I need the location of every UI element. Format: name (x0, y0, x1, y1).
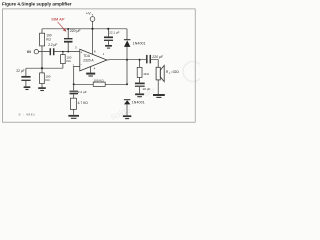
ground C7 (105, 46, 112, 48)
node output-zobel junction (139, 59, 141, 61)
svg-text:IN: IN (27, 50, 31, 54)
ground D2 (123, 116, 131, 118)
label R1 value 100K (46, 34, 52, 42)
capacitor C2 220uF (bias) (64, 29, 73, 52)
pin 1 (103, 52, 105, 56)
svg-text:220 μF: 220 μF (151, 55, 164, 59)
supply terminal +Vs (90, 17, 95, 29)
stamp code L-4881 (19, 113, 36, 117)
op-amp U1 TDA2320A (80, 49, 107, 71)
node rail-C01 junction (107, 28, 109, 30)
diode D1 1N4001 (124, 29, 130, 60)
label op-amp minus (81, 62, 83, 67)
svg-text:2320 A: 2320 A (83, 58, 94, 62)
label RL value 32 ohm (166, 70, 179, 75)
label C1 value 2.2uF (48, 43, 57, 47)
svg-text:KΩ: KΩ (45, 78, 50, 82)
pin 4 (94, 67, 96, 71)
wire feedback riser (126, 60, 128, 85)
pin 8 (94, 50, 96, 54)
wire +V rail (42, 28, 127, 30)
svg-text:+V: +V (86, 11, 91, 16)
node output-diode junction (126, 59, 128, 61)
resistor R6 1K (zobel) (137, 60, 142, 78)
label U1 TDA2320A (83, 54, 94, 63)
label R4 value 4.7K (78, 101, 89, 105)
ground C3 (24, 87, 31, 89)
resistor R2 100K (lower divider) (40, 68, 45, 87)
ground R2 (38, 88, 46, 90)
node input-C220 junction (67, 51, 69, 53)
annotation SIM AP (red) (51, 17, 65, 22)
wire op-amp V- pin (90, 67, 92, 73)
label D2 value 1N4001 (132, 101, 145, 105)
svg-text:1N4001: 1N4001 (132, 101, 145, 105)
label +Vs (86, 11, 94, 17)
ground op-amp (86, 74, 95, 76)
label op-amp plus (81, 50, 83, 54)
resistor R1 100K (40, 33, 45, 46)
capacitor C4 22uF (series gain) (70, 84, 79, 98)
svg-text:TDA: TDA (83, 54, 90, 58)
wire output to load (151, 60, 158, 68)
watermark artifacts (109, 62, 203, 122)
label C7 value 0.1uF (109, 31, 119, 35)
svg-text:220 μF: 220 μF (70, 29, 81, 33)
svg-text:=32Ω: =32Ω (171, 70, 179, 74)
capacitor C6 220uF (output coupling) (147, 55, 151, 64)
node divider midpoint (41, 67, 43, 69)
capacitor C1 2.2uF (input coupling) (50, 48, 53, 55)
diode D2 1N4001 (124, 100, 130, 116)
capacitor C3 22uF (midpoint decoupling) (21, 68, 30, 86)
label C6 value 220uF (151, 55, 164, 59)
resistor R3 100K (bias to +input) (61, 52, 66, 69)
pin 2 (73, 63, 75, 67)
label C5 value 10uF (142, 87, 150, 91)
node feedback junction (73, 83, 75, 85)
label R3 value 100K (67, 55, 72, 63)
svg-text:2.2 μF: 2.2 μF (78, 90, 87, 94)
node input-R3 junction (62, 51, 64, 53)
resistor R4 4.7K (70, 98, 76, 115)
svg-text:S - 4881: S - 4881 (19, 113, 36, 117)
label C4 value 22uF (78, 90, 87, 94)
svg-text:1KΩ: 1KΩ (143, 72, 150, 76)
ground R4 (68, 116, 79, 119)
wire input (38, 51, 80, 53)
svg-text:Figure 4.: Figure 4. (2, 2, 21, 7)
svg-text:+: + (81, 50, 83, 54)
wire inverting input (74, 67, 80, 85)
label C3 value 22uF (16, 69, 24, 73)
annotation red arrow (58, 22, 67, 32)
svg-text:KΩ: KΩ (46, 38, 51, 42)
ground speaker (153, 95, 165, 97)
label C2 value 220uF (70, 29, 81, 33)
input terminal IN (34, 50, 38, 54)
svg-text:1N4001: 1N4001 (133, 42, 146, 46)
svg-text:Single supply amplifier: Single supply amplifier (21, 2, 71, 7)
svg-text:SIM AP: SIM AP (51, 17, 65, 22)
svg-text:22.1 μF: 22.1 μF (109, 31, 119, 35)
capacitor C5 10uF (zobel) (135, 77, 145, 93)
pin 3 (75, 46, 77, 50)
label R2 value 100K (45, 74, 50, 82)
wire Vs/2 rail (26, 67, 63, 69)
label IN (27, 50, 31, 54)
border frame (2, 9, 195, 122)
node rail-V+ junction (91, 28, 93, 30)
label R6 value 1K (143, 72, 150, 76)
wire output (107, 59, 146, 61)
svg-text:2.2 μF: 2.2 μF (48, 43, 57, 47)
label R5 value 100K (94, 78, 105, 82)
title Figure 4 (2, 2, 72, 7)
svg-text:22 μF: 22 μF (16, 69, 24, 73)
speaker RL (156, 65, 164, 81)
wire V+ pin (92, 29, 94, 55)
node rail-C220 junction (67, 28, 69, 30)
svg-text:100 KΩ: 100 KΩ (94, 78, 105, 82)
capacitor C7 0.1uF (supply decoupling) (104, 29, 113, 45)
resistor R5 100K (feedback) (74, 82, 127, 86)
svg-text:4.7 KΩ: 4.7 KΩ (78, 101, 89, 105)
ground C5 (135, 94, 144, 96)
label D1 value 1N4001 (133, 42, 146, 46)
wire speaker ground lead (157, 80, 159, 94)
wire bias chain upper (41, 29, 43, 68)
node output-feedback junction (126, 83, 128, 85)
